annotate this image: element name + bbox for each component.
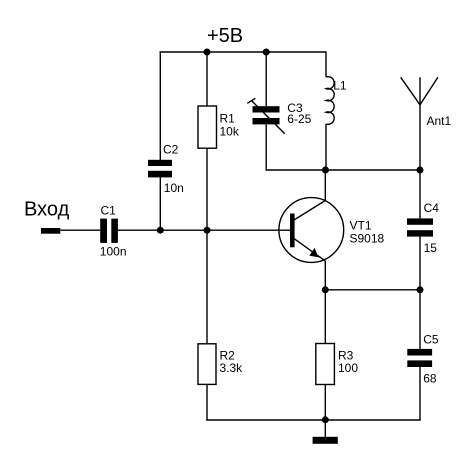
junction mid rail antenna (417, 167, 424, 174)
capacitor C5 top plate (407, 349, 432, 356)
capacitor C3 bottom plate (253, 118, 280, 124)
wire R1 column upper (206, 52, 208, 106)
svg-text:C5: C5 (423, 333, 439, 347)
junction top rail R1 (204, 49, 211, 56)
wire C2 column upper (159, 51, 161, 160)
wire C3 column upper (265, 52, 267, 106)
wire input segment left (60, 229, 100, 231)
svg-text:100n: 100n (100, 245, 127, 259)
junction emitter row C5 (417, 286, 424, 293)
ground bar (313, 437, 338, 444)
svg-text:Ant1: Ant1 (427, 114, 452, 128)
capacitor C2 bottom plate (148, 171, 172, 178)
svg-text:+5В: +5В (207, 25, 243, 47)
junction input R1 (204, 227, 211, 234)
wire emitter vertical (324, 261, 326, 344)
capacitor C3 trimmer arrow (252, 101, 285, 134)
wire L1 column lower (325, 124, 327, 170)
resistor R3 box (316, 344, 335, 385)
inductor L1 (326, 77, 334, 125)
antenna Ant1 right branch (420, 77, 438, 105)
capacitor C2 top plate (148, 160, 172, 166)
transistor VT1 circle (279, 198, 344, 263)
wire R3 column lower (324, 385, 326, 421)
svg-text:3.3k: 3.3k (220, 361, 244, 375)
svg-text:100: 100 (338, 361, 358, 375)
wire antenna vertical (419, 77, 421, 218)
capacitor C5 bottom plate (407, 360, 432, 367)
svg-text:6-25: 6-25 (287, 112, 311, 126)
resistor R2 box (198, 344, 216, 385)
wire bottom rail (206, 419, 420, 421)
transistor VT1 emitter arrowhead (309, 248, 318, 258)
svg-text:68: 68 (423, 371, 437, 385)
wire +5V top rail (160, 51, 327, 53)
wire emitter diagonal (294, 239, 325, 261)
svg-text:15: 15 (424, 241, 438, 255)
wire R1 column lower (206, 148, 208, 230)
antenna Ant1 left branch (401, 77, 420, 105)
wire mid rail collector row (266, 169, 421, 171)
capacitor C1 left plate (100, 219, 107, 243)
junction bottom rail ground (322, 416, 329, 423)
svg-text:R1: R1 (220, 112, 236, 126)
svg-text:C2: C2 (163, 143, 179, 157)
wire R2 column upper (206, 230, 208, 344)
svg-text:L1: L1 (333, 78, 347, 92)
capacitor C3 trimmer arrow tick (247, 98, 255, 103)
svg-text:S9018: S9018 (350, 232, 385, 246)
wire C2 column lower (159, 177, 161, 230)
junction emitter row R3 (322, 286, 329, 293)
wire C4 to emitter row (419, 237, 421, 291)
wire ground stub (324, 420, 326, 437)
wire L1 column upper (325, 51, 327, 77)
wire C5 column lower (419, 367, 421, 421)
wire C3 column lower (265, 124, 267, 170)
wire R2 column lower (206, 384, 208, 420)
input terminal bar (41, 228, 60, 234)
resistor R1 box (198, 106, 217, 148)
wire C5 column upper (419, 290, 421, 349)
junction input C2 (157, 227, 164, 234)
transistor VT1 base bar (290, 214, 295, 248)
wire collector diagonal (294, 201, 325, 221)
svg-text:C1: C1 (101, 203, 117, 217)
capacitor C3 top plate (253, 106, 280, 112)
capacitor C4 bottom plate (407, 230, 433, 236)
svg-text:C4: C4 (424, 201, 440, 215)
svg-text:10k: 10k (220, 125, 240, 139)
capacitor C4 top plate (407, 218, 433, 224)
capacitor C1 right plate (111, 219, 118, 243)
svg-text:10n: 10n (164, 181, 184, 195)
svg-text:Вход: Вход (24, 199, 70, 221)
wire base segment (118, 229, 290, 231)
junction top rail C3 (263, 49, 270, 56)
svg-text:VT1: VT1 (350, 219, 372, 233)
wire collector vertical (324, 170, 326, 201)
wire emitter row (325, 289, 421, 291)
junction mid rail L1 (322, 167, 329, 174)
